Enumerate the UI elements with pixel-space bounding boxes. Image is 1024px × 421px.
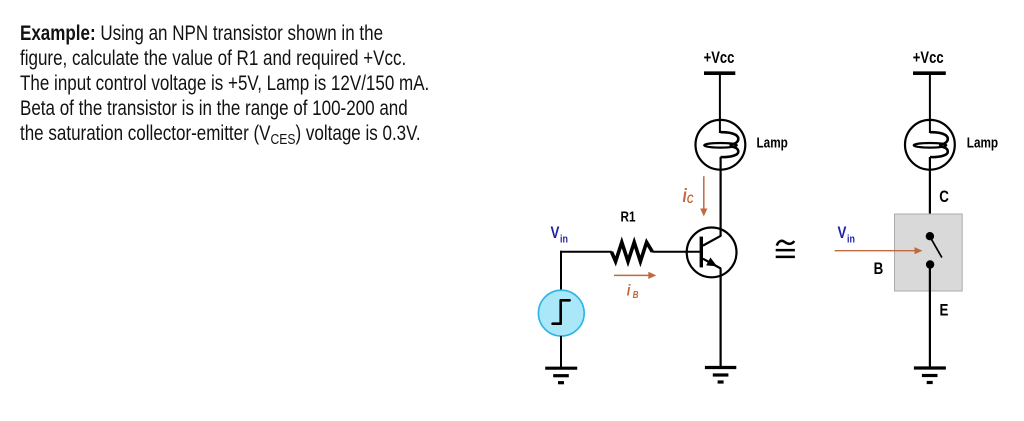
- wire Vin node down to source: [560, 251, 562, 291]
- svg-text:B: B: [874, 260, 884, 279]
- base drive arrow (right): [835, 247, 923, 254]
- svg-text:Lamp: Lamp: [757, 134, 788, 150]
- label iB: [627, 282, 639, 300]
- svg-text:+Vcc: +Vcc: [913, 50, 944, 68]
- wire Vin node to resistor: [560, 251, 612, 253]
- wire lamp to switch box (right): [929, 157, 931, 233]
- current arrow iB: [614, 272, 656, 279]
- switch contact bottom (emitter): [926, 260, 934, 268]
- resistor R1 zigzag: [612, 242, 653, 261]
- svg-text:in: in: [560, 234, 568, 246]
- svg-text:R1: R1: [621, 208, 636, 224]
- ground (middle circuit): [705, 368, 736, 383]
- approximately-equal symbol: [776, 241, 795, 257]
- svg-text:C: C: [687, 194, 694, 206]
- +Vcc supply bar (right circuit): [913, 71, 946, 75]
- +Vcc supply label (middle circuit): [704, 50, 735, 68]
- switch contact top (collector): [926, 232, 934, 240]
- lamp L2 (right circuit): [905, 120, 955, 170]
- current arrow iC: [700, 176, 707, 216]
- svg-text:Lamp: Lamp: [967, 134, 998, 150]
- label Vin (right circuit): [838, 224, 855, 246]
- lamp L1 (middle circuit): [696, 120, 746, 170]
- wire Vcc bar to lamp (right): [929, 74, 931, 133]
- transistor Q1 (NPN): [687, 228, 737, 278]
- problem statement text: [20, 21, 429, 146]
- wire emitter to ground (middle): [719, 268, 721, 367]
- step voltage source V1: [538, 290, 584, 336]
- +Vcc supply bar (middle circuit): [704, 71, 735, 75]
- wire lamp to collector (middle): [719, 157, 721, 236]
- wire resistor to base: [652, 251, 700, 253]
- wire switch to ground (right): [929, 267, 931, 368]
- wire source to ground (left): [560, 336, 562, 368]
- svg-text:V: V: [551, 224, 560, 243]
- svg-text:B: B: [633, 289, 639, 300]
- ground (left, under source): [545, 368, 577, 383]
- svg-text:in: in: [847, 234, 855, 246]
- svg-text:E: E: [940, 301, 949, 320]
- svg-text:V: V: [838, 224, 847, 243]
- svg-text:C: C: [939, 188, 949, 207]
- ground (right circuit): [914, 368, 946, 383]
- switch blade: [932, 240, 942, 258]
- label iC: [683, 184, 694, 206]
- svg-text:i: i: [627, 282, 631, 300]
- svg-text:+Vcc: +Vcc: [704, 50, 735, 68]
- wire Vcc bar to lamp (middle): [719, 74, 721, 133]
- label Vin (middle circuit): [551, 224, 568, 246]
- switch box (transistor as switch): [895, 214, 963, 291]
